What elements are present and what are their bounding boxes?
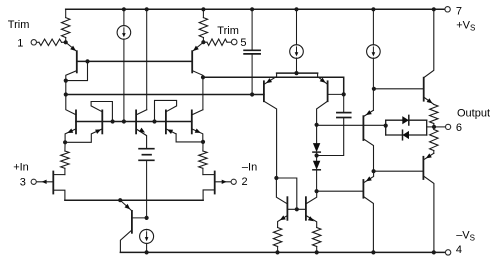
- svg-text:Trim: Trim: [8, 19, 30, 31]
- svg-text:Trim: Trim: [217, 25, 239, 37]
- svg-text:7: 7: [456, 5, 462, 17]
- svg-text:+In: +In: [13, 161, 29, 173]
- svg-text:6: 6: [456, 122, 462, 134]
- svg-text:4: 4: [456, 244, 462, 256]
- svg-text:2: 2: [242, 176, 248, 188]
- svg-text:–In: –In: [242, 161, 257, 173]
- svg-text:3: 3: [20, 177, 26, 189]
- svg-text:5: 5: [240, 37, 246, 49]
- svg-text:Output: Output: [457, 108, 490, 120]
- svg-text:1: 1: [17, 38, 23, 50]
